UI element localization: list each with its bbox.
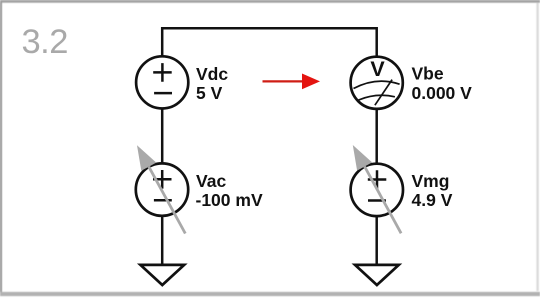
label Vdc 5 V [196,64,228,103]
voltage source Vmg (variable) [351,164,403,216]
svg-text:5 V: 5 V [196,83,223,103]
voltage source Vdc [136,56,188,108]
wire: voltmeter to Vmg [375,109,378,164]
svg-text:4.9 V: 4.9 V [412,190,453,210]
ground (left) [140,265,184,285]
variable-source arrow on Vmg [353,145,401,233]
ground (right) [355,265,399,285]
wire: Vdc to Vac [161,109,164,164]
wire: top rail from Vdc to voltmeter [162,28,377,57]
label Vmg 4.9 V [412,171,453,210]
svg-text:-100 mV: -100 mV [196,190,263,210]
label Vac -100 mV [196,171,263,210]
svg-text:Vmg: Vmg [412,171,450,191]
svg-text:Vdc: Vdc [196,64,228,84]
svg-text:Vbe: Vbe [412,64,444,84]
svg-text:3.2: 3.2 [22,23,68,61]
wire: Vac to left ground [161,216,164,266]
figure number 3.2 [22,23,68,61]
svg-text:V: V [370,57,385,81]
voltmeter Vbe [351,57,403,109]
svg-text:Vac: Vac [196,171,226,191]
red signal arrow [263,74,321,90]
svg-text:0.000 V: 0.000 V [412,83,473,103]
wire: Vmg to right ground [375,216,378,266]
label Vbe 0.000 V [412,64,473,104]
voltage source Vac (variable) [136,163,188,215]
variable-source arrow on Vac [137,145,185,233]
